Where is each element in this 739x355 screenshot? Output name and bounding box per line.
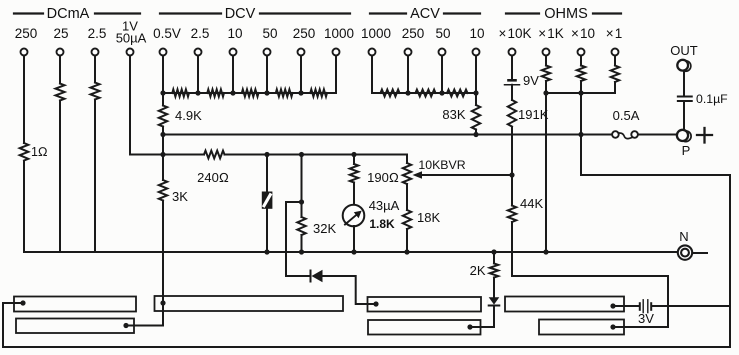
label 18K [417,210,440,225]
terminal jack x10K [509,49,516,56]
junction 2K at common [491,249,496,254]
wire DCV terminal drop x=163 [162,56,164,93]
junction ACV bus x=476 [473,90,478,95]
junction bar E contact [610,303,615,308]
label 9V [523,73,539,88]
svg-text:25: 25 [53,26,68,41]
wire 240 row left [163,154,204,156]
wire 25 column upper [59,56,61,84]
resistor 4.9K [159,106,167,127]
junction rect-diode col [264,152,269,157]
svg-text:OUT: OUT [670,43,698,58]
resistor DCV divider seg4 [276,89,293,96]
wire common horizontal [24,251,678,253]
label 10KBVR [418,158,465,172]
junction rectifier at common [264,249,269,254]
svg-text:10KBVR: 10KBVR [418,158,465,172]
label P [682,143,691,158]
wire OUT to capacitor [683,72,685,96]
svg-text:0.1µF: 0.1µF [696,92,728,106]
wire ACV terminal drop x=408 [407,56,409,93]
resistor 191K [508,100,516,127]
terminal jack 25 [57,49,64,56]
range label 2.5 [191,26,210,41]
resistor 2K [490,264,498,278]
battery 9V [505,80,520,85]
resistor ACV divider seg2 [416,90,436,97]
wire 4.9K bottom to main bus [162,127,164,135]
range label 10 [469,26,484,41]
svg-text:1000: 1000 [324,26,354,41]
label 43uA [369,198,400,213]
svg-text:3V: 3V [638,311,654,326]
wire x1K terminal drop [545,56,547,66]
wire DCV terminal drop x=267 [266,56,268,93]
wire DCV terminal drop x=198 [197,56,199,93]
junction ACV bus x=442 [439,90,444,95]
wire meter col stub [353,155,355,165]
wire ACV terminal drop x=476 [475,56,477,93]
resistor DCV divider seg2 [207,89,224,96]
wire 32K tap to diode branch [286,202,310,276]
svg-text:10: 10 [227,26,242,41]
svg-text:DCV: DCV [225,6,256,22]
label OUT [670,43,698,58]
wire x1 resistor to bus corner [614,82,616,93]
svg-text:2K: 2K [470,263,486,278]
wire 2.5 column upper [94,56,96,83]
junction 18K at common [404,249,409,254]
wire N stub right [692,252,707,254]
svg-text:50µA: 50µA [116,31,147,46]
label 190 Ohm [367,170,399,185]
svg-text:2.5: 2.5 [88,26,107,41]
diode D1 (points left) [311,270,323,282]
junction meter at common [351,249,356,254]
terminal jack ACV1000 [369,49,376,56]
wire 0.5V col bus to 4.9K [162,93,164,106]
wire 1V col between buses [162,135,164,155]
wire 25 column lower [59,101,61,253]
range label x&#8202;1K [538,26,564,41]
svg-text:240Ω: 240Ω [197,170,229,185]
resistor 3K [159,180,167,201]
resistor 2.5mA shunt [91,83,100,100]
switch bar A (row1 far left) [14,297,136,312]
switch bar B (row2 far left) [16,319,134,334]
wire x10 column down to main bus [580,93,582,135]
svg-text:9V: 9V [523,73,539,88]
range label 250 [402,26,425,41]
section label DCV with flanking dashes [160,6,350,22]
junction DCV bus x=301 [298,90,303,95]
svg-text:DCmA: DCmA [47,6,90,22]
terminal jack 2.5 [92,49,99,56]
wire 44K column down and right to bar F link [512,175,668,327]
terminal jack ACV10 [473,49,480,56]
junction bar F contact [610,324,615,329]
pot wiper arrow [413,171,513,179]
label 32K [313,221,336,236]
svg-text:18K: 18K [417,210,440,225]
rectifier (filled box with slash) [262,192,273,209]
svg-text:0.5A: 0.5A [613,108,640,123]
terminal jack x1 [612,49,619,56]
resistor DCV divider seg5 [310,89,327,96]
wire 3K column upper [162,155,164,181]
label N [679,229,688,244]
switch bar D (row1 middle) [368,297,482,312]
meter 43uA (circle with needle) [343,205,365,227]
wire battery to 191K [511,85,513,100]
range label 10 [227,26,242,41]
terminal jack 0.5V [160,49,167,56]
svg-text:× 1K: × 1K [538,26,564,41]
svg-text:× 10K: × 10K [498,26,531,41]
range label 1V 50uA (two lines) [116,19,147,46]
resistor 240 Ohm [204,151,225,159]
terminal jack DCV50 [264,49,271,56]
diode D2 (points down) [489,297,500,305]
junction 83K on main bus [473,132,478,137]
svg-text:P: P [682,143,691,158]
battery 3V [640,300,651,313]
terminal OUT (overlapping double circle jack) [677,60,691,72]
range label 1000 [324,26,354,41]
junction bar A contact [20,300,25,305]
junction bar C contact [160,300,165,305]
wire 2.5 column lower [94,100,96,253]
wire 250 column upper [23,56,25,143]
wire x1K resistor to bus [545,81,547,93]
terminal jack x1K [543,49,550,56]
label 44K [520,196,543,211]
label 3V [638,311,654,326]
junction bar G contact [467,324,472,329]
wire 2K to diode [493,278,495,298]
label plus sign [697,128,712,143]
svg-text:× 10: × 10 [571,26,595,41]
range label 50 [435,26,450,41]
svg-text:1000: 1000 [361,26,391,41]
wire 2K upper [493,252,495,263]
terminal jack DCV10 [230,49,237,56]
wire ACV terminal drop x=372 [371,56,373,93]
terminal jack DCV1000 [333,49,340,56]
wire bottom common rail [3,346,730,348]
wire DCV bus [163,92,336,94]
svg-text:32K: 32K [313,221,336,236]
svg-text:3K: 3K [172,189,188,204]
range label 2.5 [88,26,107,41]
svg-text:250: 250 [293,26,316,41]
svg-text:250: 250 [402,26,425,41]
junction main bus left end [160,132,165,137]
wire DCV terminal drop x=301 [300,56,302,93]
switch bar F (row2 right) [539,320,624,335]
terminal P (overlapping double circle jack) [677,130,691,142]
junction OHMS bus x10 [578,90,583,95]
range label 1000 [361,26,391,41]
junction DCV bus x=267 [264,90,269,95]
label 0.1uF [696,92,728,106]
wire 190 Ohm to meter [353,183,355,206]
junction meter col [351,152,356,157]
range label 50 [262,26,277,41]
svg-text:50: 50 [262,26,277,41]
junction x10 at main bus [578,132,583,137]
junction 32K at common [299,249,304,254]
terminal jack 250 [21,49,28,56]
section label DCmA with flanking dashes [14,6,140,22]
wire bar F link into bar [613,326,624,328]
wire 32K column lower [301,235,303,252]
terminal jack DCV2.5 [195,49,202,56]
label 4.9K [175,108,202,123]
potentiometer 10KB VR resistor [403,163,411,184]
wire 32K column upper [301,155,303,218]
junction DCV bus x=163 [160,90,165,95]
junction bar B contact [123,323,128,328]
label 240 Ohm [197,170,229,185]
terminal N (double circle) [678,245,692,259]
resistor 83K [472,105,480,130]
wire DCV terminal drop x=336 [335,56,337,93]
resistor ACV divider seg1 [381,90,400,97]
range label x&#8202;10K [498,26,531,41]
svg-text:50: 50 [435,26,450,41]
junction 32K col [299,152,304,157]
wire x10 terminal drop [580,56,582,66]
svg-text:44K: 44K [520,196,543,211]
terminal jack 1V50uA [127,49,134,56]
switch bar E (row1 right) [505,297,624,312]
svg-text:OHMS: OHMS [544,6,588,22]
svg-text:1.8K: 1.8K [369,217,395,231]
wire meter to common [353,226,355,252]
range label x&#8202;10 [571,26,595,41]
junction wiper at 191K column [509,172,514,177]
label 1 Ohm [31,145,48,159]
label 2K [470,263,486,278]
svg-text:83K: 83K [442,107,465,122]
wire fuse to P terminal [638,134,677,136]
wire rectifier column lower [266,208,268,252]
label 83K [442,107,465,122]
resistor 1 Ohm shunt [20,143,29,161]
svg-text:× 1: × 1 [606,26,623,41]
junction 1V column on 240 row [160,152,165,157]
wire 240 row right [225,154,408,156]
wire diode to bar D [323,276,377,304]
resistor x10 [577,66,585,82]
svg-text:43µA: 43µA [369,198,400,213]
svg-text:191K: 191K [518,107,549,122]
resistor 18K [403,210,411,229]
wire left rail up to bar A [3,303,23,347]
junction DCV bus x=198 [195,90,200,95]
wire ACV terminal drop x=442 [441,56,443,93]
wire diode to bar G [470,306,494,328]
svg-text:1Ω: 1Ω [31,145,48,159]
fuse 0.5A [612,131,638,138]
svg-text:250: 250 [15,26,38,41]
range label 0.5V [153,26,181,41]
range label 250 [293,26,316,41]
resistor DCV divider seg1 [172,89,189,96]
wire 83K bottom [475,130,477,135]
junction bar D contact [373,301,378,306]
wire 191K down to wiper node [511,127,513,175]
label 1.8K [369,217,395,231]
svg-text:10: 10 [469,26,484,41]
wire 18K to common [406,229,408,252]
wire x10 resistor to bus [580,81,582,93]
resistor x1K [542,66,550,82]
wire x1K column down to common [545,93,547,252]
svg-text:2.5: 2.5 [191,26,210,41]
range label 250 [15,26,38,41]
wire x1 terminal drop [614,56,616,66]
wire x10K terminal to battery [511,56,513,79]
wire ACV bus [372,92,476,94]
range label 25 [53,26,68,41]
svg-text:4.9K: 4.9K [175,108,202,123]
wire pot to 18K [406,184,408,210]
svg-text:190Ω: 190Ω [367,170,399,185]
wire 3K column lower to bar C [162,201,164,304]
svg-text:N: N [679,229,688,244]
wire main bus [163,134,612,136]
section label OHMS with flanking dashes [506,6,621,22]
wire bar E to battery [613,305,638,307]
svg-text:0.5V: 0.5V [153,26,181,41]
svg-text:ACV: ACV [410,6,440,22]
wire 250 column lower [23,161,25,252]
wire battery to right rail [653,305,730,307]
junction OHMS bus x1K [543,90,548,95]
wire OHMS bus [546,92,615,94]
resistor DCV divider seg3 [242,89,259,96]
label 191K [518,107,549,122]
section label ACV with flanking dashes [370,6,480,22]
resistor 44K [508,206,516,223]
junction x1K at common wire [543,249,548,254]
range label x&#8202;1 [606,26,623,41]
resistor 25mA shunt [56,84,65,101]
wire bar C through to bar B [126,303,163,326]
wire 1V/50uA column down then right to 240 Ohm row [130,56,163,155]
terminal jack DCV250 [298,49,305,56]
junction DCV bus x=233 [230,90,235,95]
junction ACV bus x=408 [405,90,410,95]
resistor ACV divider seg3 [447,90,468,97]
wire DCV terminal drop x=233 [232,56,234,93]
resistor 32K [297,217,305,235]
wire x10 node down to right rail [581,135,730,348]
resistor 190 Ohm [350,164,358,183]
switch bar G (row2 middle) [368,320,481,335]
wire pot col stub [406,155,408,164]
wire rectifier column upper [266,155,268,193]
switch bar C (row1 left-middle) [155,296,344,311]
label 0.5A [613,108,640,123]
terminal jack x10 [578,49,585,56]
label 3K [172,189,188,204]
capacitor 0.1uF [678,97,692,102]
resistor x1 [611,66,619,83]
junction 32K top tap [299,199,304,204]
terminal jack ACV50 [439,49,446,56]
wire ACV10 col bus to 83K [475,93,477,105]
terminal jack ACV250 [405,49,412,56]
wire capacitor to P [683,101,685,129]
